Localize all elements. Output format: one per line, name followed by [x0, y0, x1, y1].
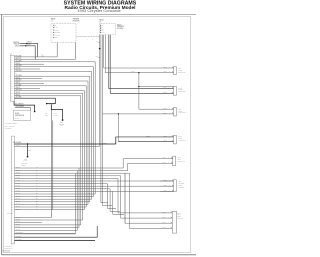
- svg-text:C2: C2: [99, 21, 101, 23]
- wire S6 left quarter panel lead 3: [160, 190, 174, 192]
- bundle wire 10: [78, 168, 80, 227]
- svg-text:LF+: LF+: [102, 25, 104, 27]
- pin hook S6 left quarter panel 1: [172, 180, 173, 181]
- wire C2 lower row 3: [14, 222, 42, 224]
- top rule: [0, 13, 196, 15]
- junction dot chain at S2: [138, 86, 139, 87]
- bundle wire 5: [87, 81, 89, 204]
- wire dark row A: [14, 143, 115, 145]
- svg-text:RIGHT: RIGHT: [177, 212, 181, 214]
- svg-text:X55 18: X55 18: [163, 71, 167, 73]
- wire C1 row 10: [14, 80, 88, 82]
- radio connector C1 box: [10, 55, 14, 101]
- pin hook S7 right quarter panel 3: [171, 222, 172, 223]
- svg-text:RF+: RF+: [102, 28, 105, 30]
- svg-text:X32 18: X32 18: [16, 200, 20, 202]
- bundle wire 1: [94, 62, 96, 194]
- svg-text:B+: B+: [55, 25, 57, 27]
- wire S1 left front door lead 1: [104, 67, 174, 69]
- svg-text:GND: GND: [55, 37, 58, 39]
- wire C2 row 13: [14, 198, 91, 200]
- svg-text:X39 18: X39 18: [162, 211, 166, 213]
- bundle wire 2: [92, 67, 94, 197]
- svg-text:X65 18: X65 18: [16, 221, 20, 223]
- wire C2 row 9: [14, 188, 110, 190]
- wire C2 row 14: [14, 201, 89, 203]
- pin hook S2 right front door 1: [172, 88, 173, 89]
- wire C1 row 15: [14, 92, 82, 94]
- wire S3 left instrument panel lead 2: [102, 113, 173, 115]
- radio connector C2 box: [11, 136, 14, 244]
- noise suppressor box: [14, 110, 31, 120]
- wire C2 lower row 4: [14, 224, 80, 226]
- wire C1 row 3: [14, 61, 95, 63]
- svg-text:X63 18: X63 18: [16, 219, 20, 221]
- ground terminal G200: [62, 119, 64, 121]
- pin hook S6 left quarter panel 2: [172, 185, 173, 186]
- wire C2 row 1: [14, 167, 123, 169]
- page left edge: [1, 14, 3, 254]
- ground strap wire: [51, 105, 62, 119]
- wire C2 row 11: [14, 193, 95, 195]
- wire C2 row 4: [14, 175, 120, 177]
- svg-text:X69 18: X69 18: [16, 226, 20, 228]
- svg-text:X57 18: X57 18: [163, 92, 167, 94]
- svg-text:F35 20RD: F35 20RD: [16, 56, 22, 58]
- svg-text:SWITCH: SWITCH: [14, 44, 20, 46]
- svg-text:RD/WT: RD/WT: [146, 135, 150, 137]
- wire S3 left instrument panel lead 1: [139, 108, 174, 110]
- bottom web corner 3: [107, 184, 116, 209]
- svg-text:X33 18: X33 18: [16, 169, 20, 171]
- wire C2 row 2: [14, 170, 127, 172]
- junction dot ignition 2: [25, 45, 26, 46]
- wire C2 row 8: [14, 185, 173, 187]
- svg-text:X31 18: X31 18: [16, 167, 20, 169]
- svg-text:X33 18: X33 18: [162, 227, 166, 229]
- svg-text:X58 18GY: X58 18GY: [16, 70, 22, 72]
- svg-text:X47 18: X47 18: [163, 185, 167, 187]
- wire C2 row 6: [14, 180, 173, 182]
- svg-text:DIMMER: DIMMER: [55, 32, 60, 34]
- riser to S4 lead 1: [115, 137, 117, 144]
- svg-text:X37 18: X37 18: [16, 174, 20, 176]
- junction dot chain at S1: [138, 72, 139, 73]
- bottom web corner 4: [110, 189, 120, 212]
- svg-text:Z01 18BK: Z01 18BK: [16, 96, 22, 98]
- svg-text:C1: C1: [10, 53, 12, 55]
- svg-text:X38 18: X38 18: [16, 208, 20, 210]
- wire S1 left front door lead 2: [105, 72, 173, 74]
- svg-text:X57 18: X57 18: [16, 68, 20, 70]
- tick on vertical 1 upper: [98, 41, 99, 43]
- tick label near x43: [42, 55, 44, 57]
- svg-text:G200: G200: [60, 122, 63, 124]
- svg-text:S201: S201: [28, 150, 31, 152]
- svg-text:X55 18: X55 18: [163, 112, 167, 114]
- row extension to S7 riser 4: [125, 172, 130, 174]
- wire C2 row 5: [14, 177, 118, 179]
- svg-text:DOOR SPKR: DOOR SPKR: [178, 71, 185, 73]
- diagram frame: [4, 17, 191, 253]
- wire S5 left rear door lead 1: [123, 158, 173, 160]
- svg-text:18BK: 18BK: [45, 115, 48, 117]
- long vertical B to lower rows: [52, 120, 54, 209]
- box A pins and labels: [53, 25, 54, 26]
- svg-text:X39 18: X39 18: [16, 177, 20, 179]
- svg-text:X37 18: X37 18: [162, 217, 166, 219]
- pin hook S4 right instrument panel 2: [172, 141, 173, 142]
- speaker box S6 left quarter panel: [174, 180, 177, 192]
- bottom web corner 2: [102, 205, 112, 207]
- svg-text:LEFT: LEFT: [178, 68, 181, 70]
- svg-text:RIGHT: RIGHT: [178, 87, 182, 89]
- page bottom edge: [2, 254, 196, 256]
- speaker box S2 right front door: [174, 86, 177, 95]
- box B vertical feed 4: [103, 35, 105, 68]
- svg-text:IGNITION: IGNITION: [13, 42, 19, 44]
- speaker box S4 right instrument panel: [174, 135, 177, 144]
- wire C1 row 5: [14, 66, 93, 68]
- wire C1 row 12: [14, 85, 86, 87]
- pin hook S7 right quarter panel 2: [171, 217, 172, 218]
- svg-text:X35 18: X35 18: [16, 172, 20, 174]
- wire C1 row 14: [14, 90, 84, 92]
- wire S5 left rear door lead 2: [128, 162, 173, 164]
- junction dot ignition 1: [26, 43, 27, 44]
- svg-text:NOISE: NOISE: [15, 113, 19, 115]
- speaker box S5 left rear door: [173, 156, 176, 166]
- svg-text:LEFT: LEFT: [178, 157, 181, 159]
- svg-text:X36 18: X36 18: [16, 206, 20, 208]
- svg-text:X12 20RD/WT: X12 20RD/WT: [16, 106, 25, 108]
- svg-text:X35 18: X35 18: [162, 222, 166, 224]
- svg-text:FEEDS: FEEDS: [21, 164, 25, 166]
- svg-text:X31 18: X31 18: [162, 157, 166, 159]
- svg-text:(RUN): (RUN): [15, 45, 19, 47]
- svg-text:X43 18: X43 18: [16, 182, 20, 184]
- radio unit box A dashed: [51, 24, 76, 43]
- wire C2 row 16: [14, 206, 86, 208]
- wire C2 row 7: [14, 183, 107, 185]
- svg-text:X56 18: X56 18: [16, 82, 20, 84]
- pin hook S2 right front door 2: [172, 92, 173, 93]
- wire C2 row 12: [14, 196, 93, 198]
- svg-text:X61 18: X61 18: [16, 216, 20, 218]
- pin hook S7 right quarter panel 1: [171, 212, 172, 213]
- svg-text:INSTR: INSTR: [178, 138, 182, 140]
- wire S7 right quarter panel lead 4: [130, 227, 173, 229]
- svg-text:Z01 18BK: Z01 18BK: [16, 236, 22, 238]
- terminal dot Z01: [46, 103, 48, 105]
- wire S2 right front door lead 2: [110, 92, 173, 94]
- svg-text:X49 18: X49 18: [163, 190, 167, 192]
- svg-text:Z01: Z01: [55, 113, 57, 115]
- svg-text:RIGHT: RIGHT: [178, 136, 182, 138]
- dark wire from C1 bottom: [14, 101, 34, 111]
- svg-text:X53 18: X53 18: [163, 108, 167, 110]
- svg-text:Z01: Z01: [45, 113, 47, 115]
- pin hook S6 left quarter panel 3: [172, 190, 173, 191]
- wire C2 row 17: [14, 209, 84, 211]
- wire C2 lower row 1: [14, 217, 51, 219]
- wire C1 row 6: [14, 68, 40, 70]
- svg-text:1993 Chrysler Concorde: 1993 Chrysler Concorde: [77, 8, 121, 13]
- bundle wire 9: [80, 96, 82, 225]
- bundle wire 12: [74, 173, 76, 234]
- svg-text:X51 18: X51 18: [16, 193, 20, 195]
- svg-text:X53 18: X53 18: [163, 66, 167, 68]
- ground terminal G201: [27, 156, 29, 158]
- riser S7 wire 4: [129, 173, 131, 228]
- box A pin stub 2: [75, 43, 77, 60]
- wire C2 lower row 2: [14, 219, 82, 221]
- svg-text:X71 18: X71 18: [16, 229, 20, 231]
- bundle wire 8: [82, 93, 84, 220]
- box B vertical feed 2: [100, 35, 102, 203]
- chain wire S1 to S2: [139, 73, 174, 87]
- svg-text:INSTR: INSTR: [178, 110, 182, 112]
- wire row B: [14, 145, 99, 147]
- bundle wire 7: [83, 91, 85, 210]
- svg-text:FRONT: FRONT: [178, 89, 182, 91]
- box B vertical feed 5: [104, 35, 106, 73]
- bottom web corner 1: [101, 202, 108, 204]
- bundle wire 4: [89, 76, 91, 202]
- svg-text:X47 18: X47 18: [16, 187, 20, 189]
- svg-text:ILLUM: ILLUM: [55, 30, 59, 32]
- wire C2 dark bottom row 2: [14, 233, 75, 235]
- wire C2 dark bottom row 3: [14, 226, 97, 237]
- svg-text:C1: C1: [51, 20, 53, 22]
- riser S7 wire 1: [117, 178, 119, 213]
- wire S7 right quarter panel lead 1: [118, 212, 172, 214]
- svg-text:X51 18DG: X51 18DG: [16, 75, 22, 77]
- wire C1 row 1: [14, 56, 57, 58]
- svg-text:LEFT: LEFT: [178, 109, 181, 111]
- svg-text:X59 18: X59 18: [16, 87, 20, 89]
- box B vertical feed 1: [99, 35, 101, 147]
- wire C1 row 4: [14, 63, 44, 65]
- bottom web corner 5: [113, 191, 124, 214]
- wire S6 left quarter panel lead 2: [160, 185, 174, 187]
- riser to S5 lead 1: [122, 159, 124, 168]
- svg-text:F35 18RD: F35 18RD: [16, 239, 22, 241]
- svg-text:X13 20: X13 20: [16, 63, 20, 65]
- svg-text:X56: X56: [95, 56, 98, 58]
- box A pin stub 1: [56, 43, 58, 57]
- chain wire S2 to S3: [138, 86, 140, 109]
- svg-text:C1 C2: C1 C2: [15, 118, 19, 120]
- svg-text:X41 18: X41 18: [16, 180, 20, 182]
- svg-text:X45 18: X45 18: [16, 185, 20, 187]
- bundle wire 11: [76, 171, 78, 231]
- bundle wire 6: [85, 86, 87, 207]
- pin hook S7 right quarter panel 4: [171, 227, 172, 228]
- pin hook S3 left instrument panel 1: [172, 108, 173, 109]
- terminal block dot: [34, 111, 35, 112]
- svg-text:(PREMIUM: (PREMIUM: [117, 26, 125, 28]
- svg-text:DOOR SPKR: DOOR SPKR: [178, 91, 185, 93]
- wire C1 row 8: [14, 75, 89, 77]
- svg-text:PREMIUM: PREMIUM: [73, 19, 80, 21]
- box B vertical feed 7: [109, 35, 111, 94]
- svg-text:DOOR: DOOR: [177, 216, 181, 218]
- splice wire to G201: [27, 144, 29, 156]
- svg-text:X62 18: X62 18: [16, 94, 20, 96]
- svg-text:X12 20PK: X12 20PK: [16, 60, 22, 62]
- box B vertical feed 3: [101, 35, 103, 206]
- svg-text:X49 18: X49 18: [16, 190, 20, 192]
- junction dot on vertical 1: [99, 48, 100, 49]
- speaker box S3 left instrument panel: [174, 108, 177, 117]
- svg-text:X67 18: X67 18: [16, 224, 20, 226]
- wire C2 row 15: [14, 203, 88, 205]
- junction dot chain at S3: [118, 113, 119, 114]
- svg-text:SYSTEM): SYSTEM): [117, 28, 124, 30]
- riser to S5 lead 2: [127, 163, 129, 170]
- speaker box S1 left front door: [174, 67, 177, 75]
- wire S4 right instrument panel lead 2: [118, 141, 173, 143]
- wire C1 row 11: [14, 83, 44, 85]
- pin hook S4 right instrument panel 1: [172, 136, 173, 137]
- wire C2 bottom row 4: [14, 240, 95, 242]
- svg-text:X61 18: X61 18: [16, 92, 20, 94]
- splice junction S201: [27, 143, 28, 144]
- svg-text:(IN TRUNK): (IN TRUNK): [5, 128, 12, 130]
- svg-text:RECEIVER: RECEIVER: [73, 20, 80, 22]
- svg-text:X33 18: X33 18: [162, 162, 166, 164]
- wire C1 dark ground row: [14, 98, 55, 103]
- wire C1 row 7: [14, 70, 91, 72]
- pin hook S1 left front door 1: [172, 67, 173, 68]
- svg-text:Z02 18BK/LG: Z02 18BK/LG: [16, 232, 24, 234]
- wire S7 right quarter panel lead 2: [121, 217, 173, 219]
- wire C1 row 16: [14, 95, 80, 97]
- svg-text:a0582136: a0582136: [2, 251, 10, 253]
- svg-text:X55 18WT: X55 18WT: [16, 65, 22, 67]
- wire S6 left quarter panel lead 1: [160, 180, 174, 182]
- pin hook S5 left rear door 2: [171, 162, 172, 163]
- wire C1 row 2: [14, 58, 75, 60]
- radio unit box B dashed: [100, 24, 116, 35]
- wire C2 bottom row 1: [14, 229, 77, 231]
- svg-text:X53 18: X53 18: [16, 195, 20, 197]
- svg-text:G201: G201: [24, 158, 27, 160]
- wire ignition feed 1: [20, 43, 38, 57]
- svg-text:X57 18LB: X57 18LB: [16, 84, 22, 86]
- svg-text:X02 18: X02 18: [16, 144, 20, 146]
- wire C2 row 10: [14, 190, 173, 192]
- svg-text:X60 18TN: X60 18TN: [16, 89, 22, 91]
- svg-text:FRONT: FRONT: [178, 69, 182, 71]
- svg-text:18BK: 18BK: [55, 115, 58, 117]
- wire S4 right instrument panel lead 1: [116, 136, 174, 138]
- riser S7 wire 3: [124, 173, 126, 223]
- wire S2 right front door lead 1: [109, 88, 174, 90]
- svg-text:X54 18VT: X54 18VT: [16, 80, 22, 82]
- svg-text:X43 18: X43 18: [163, 179, 167, 181]
- svg-text:SUPPRESSOR: SUPPRESSOR: [15, 115, 24, 117]
- bundle wire 3: [91, 71, 93, 199]
- tick on vertical 1 lower: [98, 56, 99, 58]
- svg-text:X51 18: X51 18: [163, 87, 167, 89]
- box B vertical feed 6: [108, 35, 110, 89]
- box B pins: [100, 25, 101, 26]
- svg-text:X02 18: X02 18: [103, 142, 107, 144]
- svg-text:F35 20: F35 20: [26, 44, 30, 46]
- pin hook S5 left rear door 1: [171, 158, 172, 159]
- svg-text:X55 18: X55 18: [16, 198, 20, 200]
- svg-text:X34 18: X34 18: [16, 203, 20, 205]
- svg-text:X55 18: X55 18: [131, 71, 135, 73]
- svg-text:X04 18: X04 18: [163, 140, 167, 142]
- long vertical A to lower rows: [50, 104, 52, 218]
- svg-text:LEFT: LEFT: [178, 181, 181, 183]
- riser S7 wire 2: [120, 176, 122, 218]
- wire ignition feed 2: [20, 46, 36, 60]
- wire C1 row 9: [14, 78, 42, 80]
- wire C2 row 3: [14, 172, 125, 174]
- wire C1 row 13: [14, 88, 40, 90]
- speaker box S7 right quarter panel: [172, 211, 176, 233]
- svg-text:X02 18: X02 18: [163, 135, 167, 137]
- pin hook S3 left instrument panel 2: [172, 113, 173, 114]
- svg-text:X53 18: X53 18: [16, 77, 20, 79]
- svg-text:DOOR SPKR: DOOR SPKR: [178, 161, 185, 163]
- chain wire S3 to S4 lead 2: [118, 114, 120, 142]
- wire C2 lower row 5: [14, 226, 79, 228]
- wire to noise suppressor: [15, 108, 31, 111]
- dashed joining bottom edge: [76, 36, 100, 38]
- pin hook S1 left front door 2: [172, 72, 173, 73]
- wire S7 right quarter panel lead 3: [125, 222, 172, 224]
